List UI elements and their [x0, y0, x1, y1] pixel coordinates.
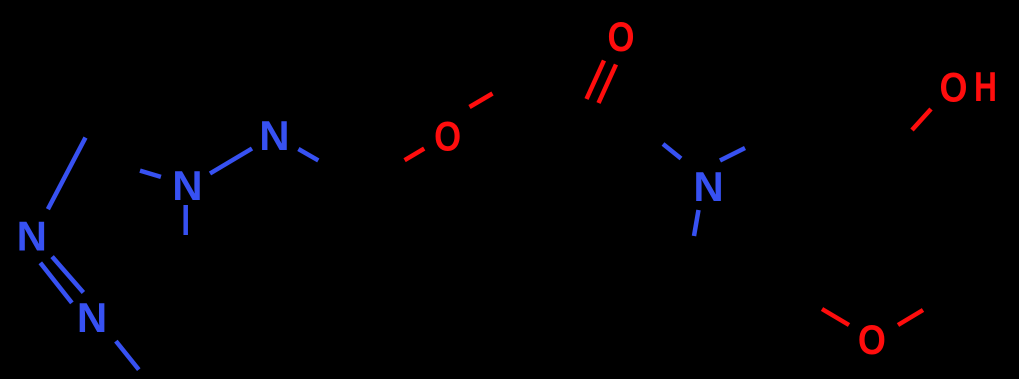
wire Oring-C half bond upper left [822, 309, 849, 325]
wire N1=N2 double bond line b [52, 257, 83, 293]
svg-text:O: O [940, 64, 968, 111]
svg-text:N: N [172, 162, 202, 209]
wire Namide-CO half bond [663, 144, 681, 159]
wire N1=N2 double bond line a [40, 263, 72, 303]
wire Oether-CH2 half bond [470, 94, 493, 108]
svg-text:N: N [259, 112, 289, 159]
wire N4-N5 bond full [210, 149, 252, 174]
wire C3-N1 bond into left N [48, 138, 86, 210]
wire N2 lower-right bond [116, 341, 139, 370]
wire Namide-ring C half bond lower [694, 210, 699, 236]
wire OH-C half bond [912, 109, 931, 130]
wire N4-C8a half bond vertical [183, 205, 188, 235]
svg-text:H: H [974, 63, 997, 110]
svg-text:O: O [858, 316, 886, 363]
svg-text:N: N [17, 213, 47, 260]
svg-text:O: O [608, 13, 635, 60]
wire C6-Oether half bond [405, 149, 425, 161]
wire N4-C3 half bond left [140, 171, 161, 177]
wire Namide-ring C half bond upper right [720, 148, 745, 161]
wire Oring-C half bond upper right [898, 310, 923, 325]
wire C=O double bond line b [599, 65, 617, 104]
wire C=O double bond line a [587, 61, 605, 100]
svg-text:N: N [77, 294, 107, 341]
svg-text:O: O [434, 112, 461, 159]
wire N5-C6 half bond [298, 149, 318, 160]
svg-text:N: N [693, 163, 723, 210]
